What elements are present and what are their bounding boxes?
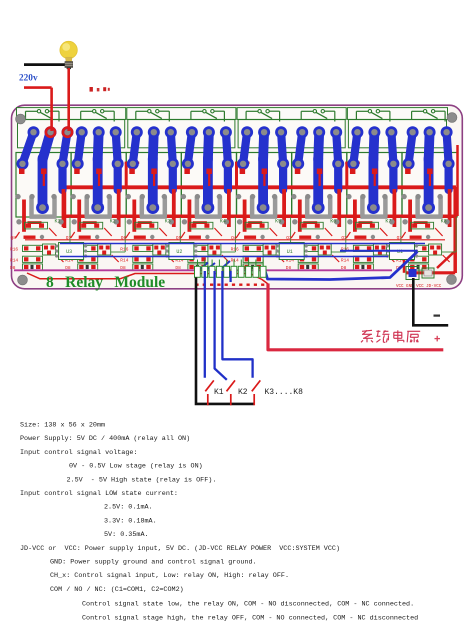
svg-text:K4: K4: [220, 219, 226, 225]
svg-text:U3: U3: [66, 249, 72, 255]
svg-text:K2: K2: [238, 388, 248, 397]
svg-text:R14: R14: [10, 257, 18, 263]
svg-text:K3: K3: [165, 219, 171, 225]
svg-text:K7: K7: [385, 219, 391, 225]
svg-text:Q3: Q3: [286, 235, 292, 241]
svg-text:R14: R14: [231, 257, 239, 263]
svg-text:JD-VCC or VCC: Power supply i: JD-VCC or VCC: Power supply input, 5V DC…: [20, 545, 340, 553]
svg-text:K1: K1: [55, 219, 61, 225]
svg-text:2.5V: 0.1mA.: 2.5V: 0.1mA.: [104, 504, 153, 512]
svg-text:Q4: Q4: [231, 235, 237, 241]
svg-text:K5: K5: [275, 219, 281, 225]
svg-text:Control signal stage high, the: Control signal stage high, the relay OFF…: [82, 614, 418, 622]
svg-text:0V - 0.5V Low stage (relay is: 0V - 0.5V Low stage (relay is ON): [69, 463, 203, 471]
svg-text:8 Relay Module: 8 Relay Module: [46, 274, 165, 291]
svg-text:5V: 0.35mA.: 5V: 0.35mA.: [104, 531, 149, 539]
svg-text:2.5V - 5V High state (relay i: 2.5V - 5V High state (relay is OFF).: [67, 476, 217, 484]
svg-text:Q2: Q2: [341, 235, 347, 241]
svg-text:U1: U1: [287, 249, 293, 255]
svg-text:220v: 220v: [19, 74, 38, 84]
svg-text:Input control signal LOW state: Input control signal LOW state current:: [20, 490, 178, 498]
svg-text:U2: U2: [176, 249, 182, 255]
svg-text:CH_x: Control signal input, Lo: CH_x: Control signal input, Low: relay O…: [50, 572, 289, 580]
svg-text:R16: R16: [120, 247, 128, 253]
svg-text:COM / NO / NC: (C1=COM1, C2=CO: COM / NO / NC: (C1=COM1, C2=COM2): [50, 586, 184, 594]
svg-text:Size: 138 x 56 x 20mm: Size: 138 x 56 x 20mm: [20, 422, 105, 430]
svg-text:K6: K6: [330, 219, 336, 225]
svg-text:Q1: Q1: [397, 235, 403, 241]
svg-text:Q5: Q5: [176, 235, 182, 241]
svg-text:Input control signal voltage:: Input control signal voltage:: [20, 449, 137, 457]
svg-text:Control signal state low, the: Control signal state low, the relay ON, …: [82, 601, 414, 609]
svg-text:R16: R16: [10, 247, 18, 253]
svg-text:3.3V: 0.18mA.: 3.3V: 0.18mA.: [104, 517, 157, 525]
svg-text:R16: R16: [231, 247, 239, 253]
svg-text:K1: K1: [214, 388, 224, 397]
svg-text:Q6: Q6: [121, 235, 127, 241]
svg-text:R14: R14: [120, 257, 128, 263]
svg-text:Q7: Q7: [66, 235, 72, 241]
svg-text:GND: Power supply ground and c: GND: Power supply ground and control sig…: [50, 559, 257, 567]
svg-text:Power Supply: 5V DC / 400mA (r: Power Supply: 5V DC / 400mA (relay all O…: [20, 435, 190, 443]
svg-text:VCC GND VCC JD-VCC: VCC GND VCC JD-VCC: [396, 285, 442, 289]
svg-text:K2: K2: [110, 219, 116, 225]
svg-text:K3....K8: K3....K8: [265, 388, 304, 397]
svg-text:R14: R14: [341, 257, 349, 263]
svg-text:Q8: Q8: [11, 235, 17, 241]
svg-text:K8: K8: [441, 219, 447, 225]
